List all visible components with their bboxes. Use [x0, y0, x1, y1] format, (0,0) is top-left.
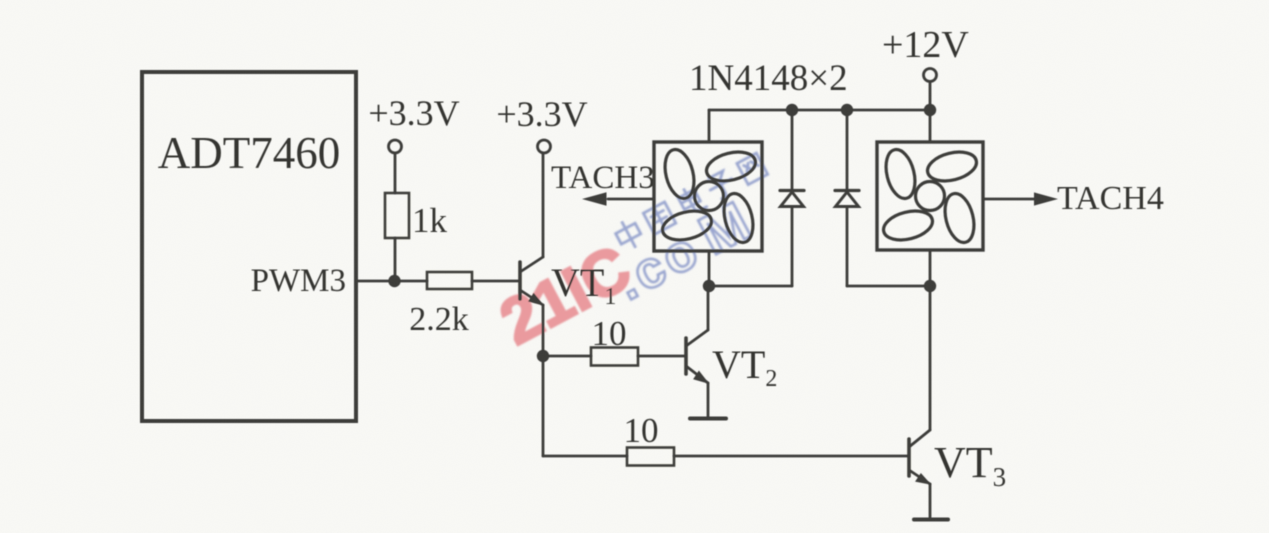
- transistor VT3: [909, 430, 930, 517]
- wire +3.3V terminal to resistor 1k: [394, 153, 397, 193]
- char dian: [676, 184, 707, 217]
- wire bottom branch to VT3: [543, 455, 627, 458]
- wire 1k to PWM3 node: [394, 238, 397, 281]
- signal arrow TACH3: [582, 192, 654, 206]
- watermark 21IC.com logo: [489, 171, 760, 368]
- wire FAN1 bottom down: [708, 251, 711, 286]
- ground (VT2 emitter): [690, 417, 726, 421]
- resistor R1 1k: [385, 193, 409, 238]
- char wang: [737, 153, 768, 185]
- resistor R2 2.2k: [427, 272, 472, 289]
- signal arrow TACH4: [984, 192, 1058, 205]
- node junction D2 top: [841, 104, 853, 116]
- power terminal +3.3V (second): [538, 140, 551, 153]
- wire VT1 emitter down: [542, 305, 545, 456]
- char zhong: [612, 217, 645, 252]
- node junction FAN1 bottom: [703, 280, 715, 292]
- transistor VT2: [686, 287, 708, 416]
- diode D1 1N4148: [780, 110, 804, 286]
- char guo: [643, 202, 675, 234]
- resistor R3 10: [591, 348, 638, 366]
- node junction D1 top: [786, 104, 798, 116]
- wire R4 to VT3 base: [674, 455, 908, 458]
- node junction FAN2 bottom: [924, 280, 936, 292]
- wire 2.2k to VT1 base: [472, 280, 518, 283]
- wire VT2 base branch: [543, 355, 591, 358]
- ground (VT3 emitter): [914, 518, 948, 522]
- fan FAN2 blades: [880, 146, 979, 245]
- wire VT1 collector to +3.3V: [542, 153, 545, 257]
- wire FAN1 top to +12V rail: [708, 110, 711, 142]
- wire +12V top rail: [709, 109, 930, 112]
- wire R3 to VT2 base: [638, 355, 685, 358]
- node junction +12V rail: [924, 104, 936, 116]
- wire FAN2 bottom / VT3 collector: [929, 250, 932, 430]
- IC U1 ADT7460 box: [142, 72, 356, 421]
- power terminal +12V: [924, 69, 937, 82]
- wire D1 bottom to FAN1 bottom node: [709, 285, 792, 288]
- resistor R4 10: [627, 448, 674, 466]
- fan FAN2 box: [877, 142, 983, 250]
- fan FAN1 box: [654, 142, 762, 251]
- wire +12V to rail and FAN2 top: [929, 82, 932, 143]
- wire PWM3 to resistor 2.2k: [356, 280, 427, 283]
- transistor VT1: [520, 257, 543, 305]
- char zi: [705, 169, 738, 202]
- fan FAN1 blades: [659, 146, 758, 245]
- node junction PWM3/1k: [388, 275, 400, 287]
- wire D2 bottom to FAN2 bottom node: [847, 285, 930, 288]
- node junction VT1 emitter / VT2 base branch: [537, 350, 549, 362]
- watermark chinese text 中国电子网: [612, 151, 768, 252]
- diode D2 1N4148: [835, 110, 859, 286]
- power terminal +3.3V (first): [389, 140, 402, 153]
